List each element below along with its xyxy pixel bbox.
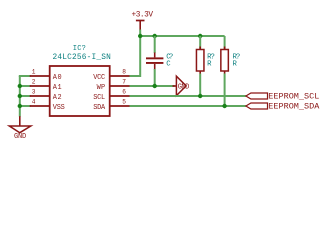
wire SCL net: [130, 95, 246, 97]
svg-text:VSS: VSS: [53, 104, 65, 112]
wire R1 bottom lead: [199, 74, 201, 97]
svg-text:GND: GND: [178, 83, 190, 91]
wire +3.3V stem: [139, 30, 141, 37]
svg-text:SDA: SDA: [93, 104, 106, 112]
svg-text:A0: A0: [53, 74, 62, 82]
pin 7 WP: [97, 79, 130, 92]
svg-text:8: 8: [122, 69, 126, 76]
pin 3 A2: [30, 89, 62, 102]
ground GND2 rotated right: [173, 76, 190, 95]
capacitor C1: [146, 53, 173, 70]
wire pin2 A1 to bus: [19, 85, 31, 87]
svg-text:1: 1: [32, 69, 36, 76]
svg-text:WP: WP: [97, 84, 106, 92]
pin 1 A0: [30, 69, 62, 82]
svg-text:+3.3V: +3.3V: [132, 11, 154, 19]
svg-text:EEPROM_SCL: EEPROM_SCL: [268, 91, 319, 101]
pin 6 SCL: [93, 89, 129, 102]
wire pin3 A2 to bus: [19, 95, 31, 97]
node EEPROM_SCL hierarchical label: [246, 91, 319, 101]
wire capacitor bottom lead: [154, 69, 156, 86]
svg-text:5: 5: [122, 99, 126, 106]
junction rail-R1: [198, 34, 202, 38]
svg-text:A2: A2: [53, 94, 62, 102]
wire R2 bottom lead: [224, 74, 226, 107]
svg-text:IC?: IC?: [73, 45, 86, 53]
wire GND bus vertical left column: [19, 76, 21, 117]
pin 2 A1: [30, 79, 62, 92]
svg-text:R: R: [207, 60, 212, 68]
junction rail-C1: [153, 34, 157, 38]
svg-text:SCL: SCL: [93, 94, 105, 102]
svg-text:VCC: VCC: [93, 74, 105, 82]
junction R1-SCL: [198, 94, 202, 98]
ground GND1 bottom left: [9, 116, 31, 141]
pin 4 VSS: [30, 99, 65, 112]
svg-text:6: 6: [122, 89, 126, 96]
junction R2-SDA: [222, 104, 226, 108]
wire VCC riser: [130, 36, 141, 76]
node EEPROM_SDA hierarchical label: [246, 101, 320, 111]
junction bus-A1: [18, 84, 22, 88]
wire WP row to ground: [130, 85, 175, 87]
svg-text:A1: A1: [53, 84, 62, 92]
svg-text:7: 7: [122, 79, 126, 86]
svg-text:C: C: [166, 60, 171, 68]
junction C1-WP: [153, 84, 157, 88]
pin 8 VCC: [93, 69, 129, 82]
svg-text:2: 2: [32, 79, 36, 86]
junction rail-VCC: [138, 34, 142, 38]
wire pin4 VSS to bus: [19, 105, 31, 107]
svg-text:3: 3: [32, 89, 36, 96]
svg-text:EEPROM_SDA: EEPROM_SDA: [268, 101, 320, 111]
resistor R1 left: [196, 36, 214, 74]
svg-text:R: R: [233, 60, 238, 68]
resistor R2 right: [221, 36, 240, 74]
junction bus-VSS: [18, 104, 22, 108]
junction bus-A2: [18, 94, 22, 98]
wire top +3.3V rail: [140, 35, 224, 37]
svg-text:24LC256-I_SN: 24LC256-I_SN: [53, 54, 112, 62]
svg-text:4: 4: [32, 99, 36, 106]
wire pin1 A0 to bus: [19, 75, 31, 77]
IC IC? 24LC256-I_SN EEPROM body: [50, 45, 111, 116]
wire SDA net: [130, 105, 246, 107]
pin 5 SDA: [93, 99, 129, 112]
svg-text:GND: GND: [14, 133, 26, 141]
wire capacitor top lead: [154, 36, 156, 53]
power +3.3V symbol: [132, 11, 154, 30]
